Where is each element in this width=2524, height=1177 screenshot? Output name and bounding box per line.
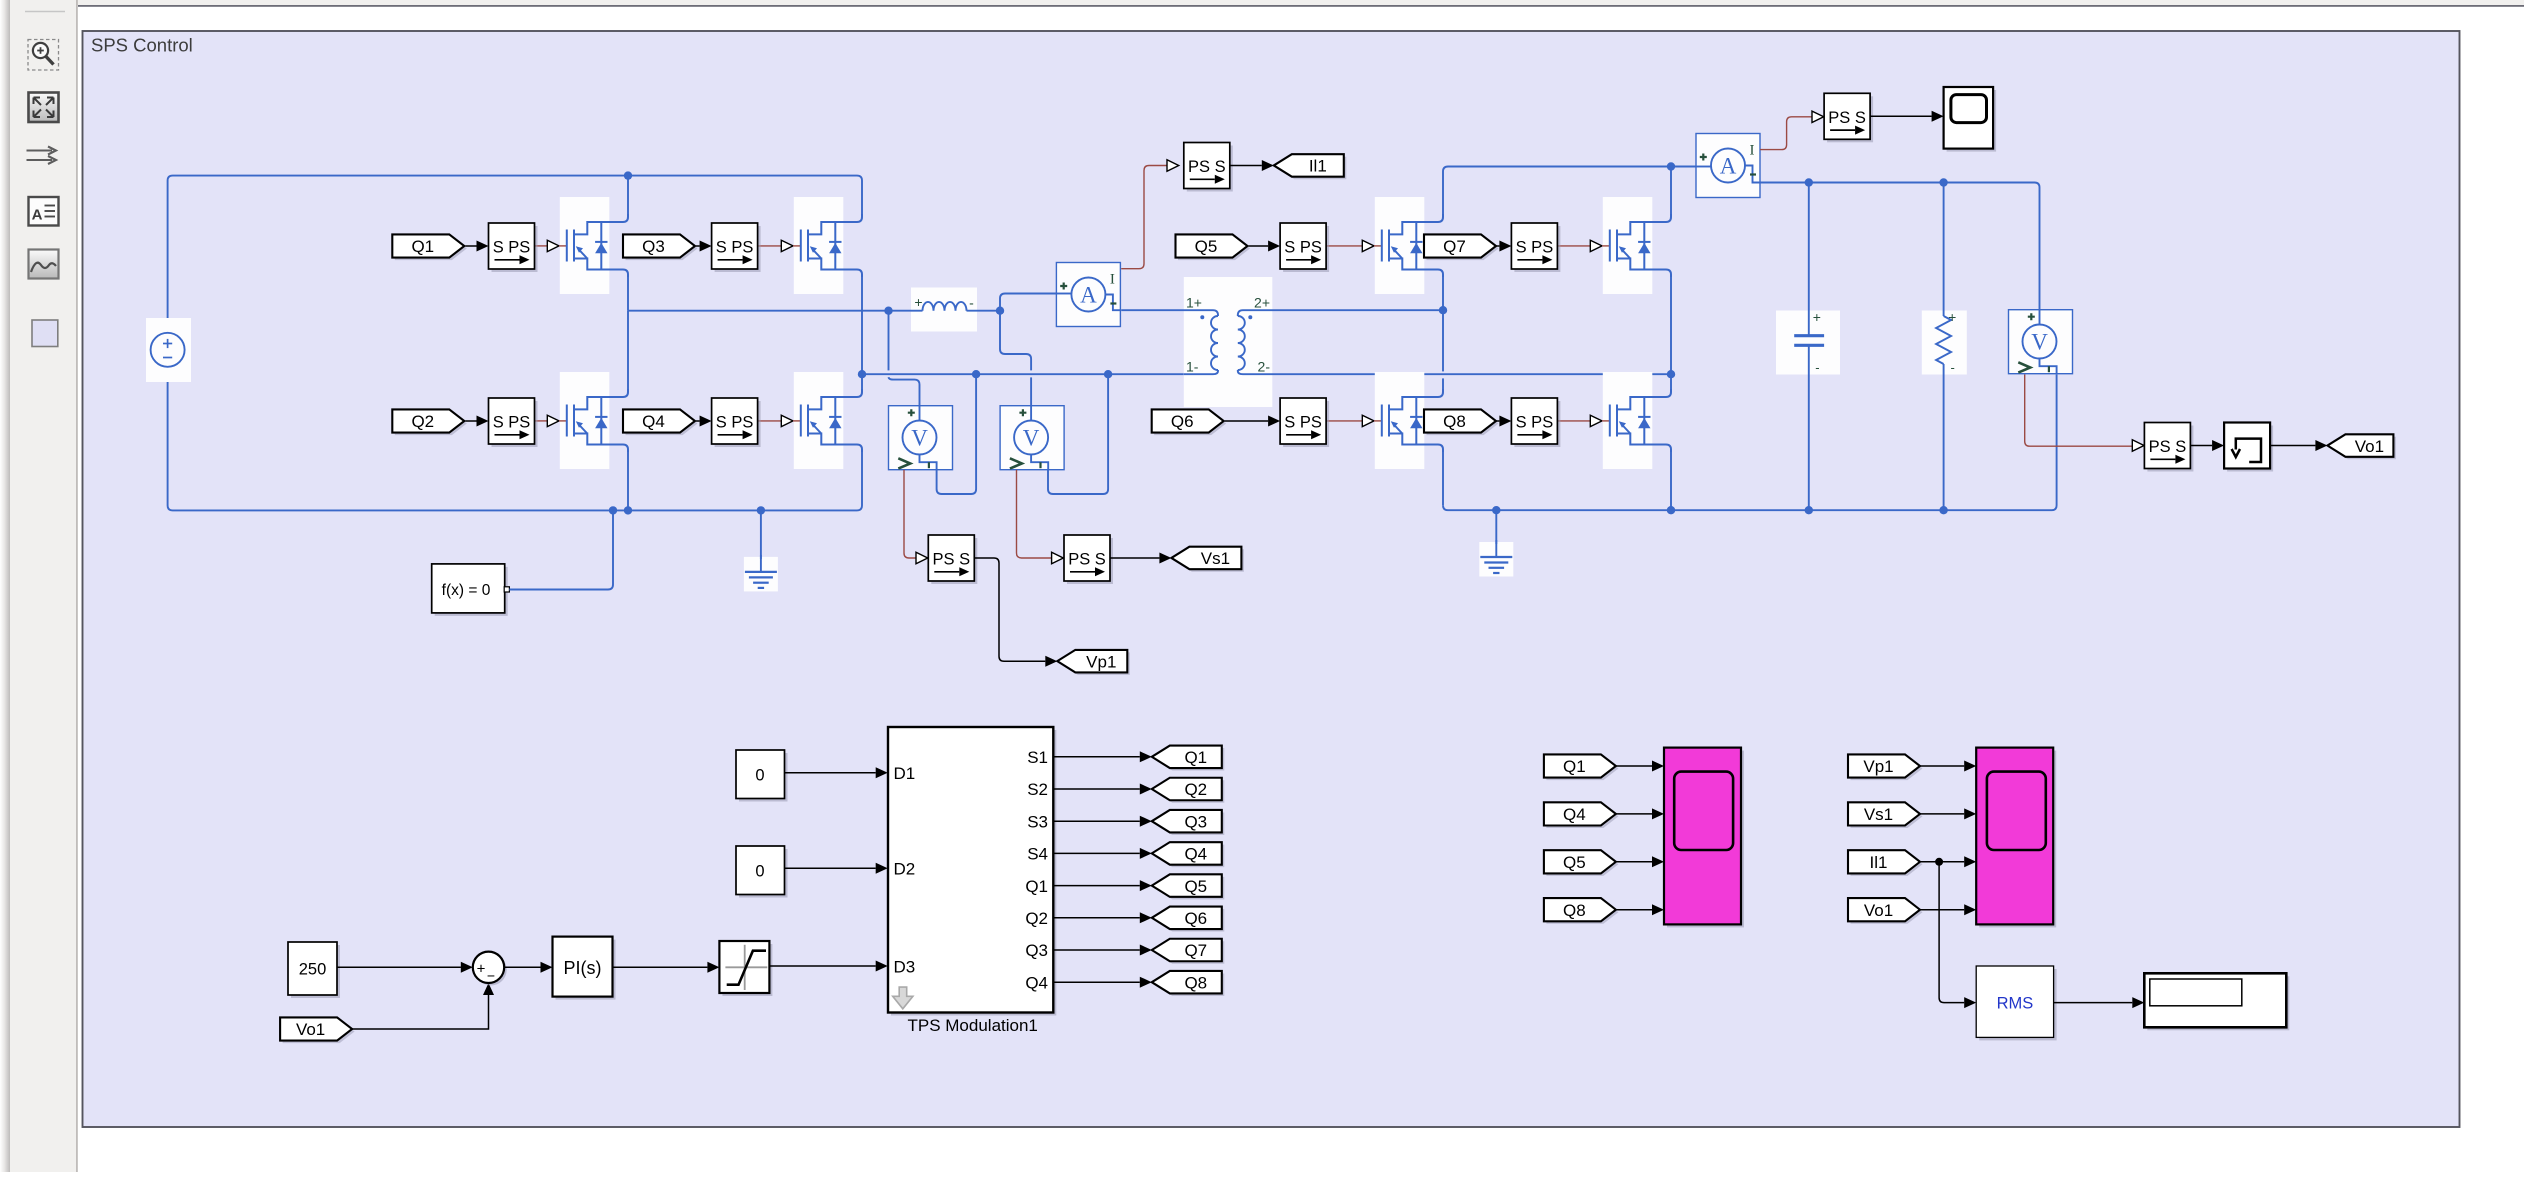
sidebar icon: area — [32, 320, 58, 347]
junction: DC rail / resistor — [1939, 178, 1947, 186]
left sidebar panel — [0, 0, 77, 1172]
svg-text:A: A — [1720, 154, 1737, 179]
wire: TPS output to Q7 tag — [1053, 949, 1140, 951]
sum block — [475, 954, 506, 985]
svg-text:Vs1: Vs1 — [1201, 549, 1230, 568]
wire: converter to Vp1 tag — [974, 558, 1045, 661]
tag Vs1 (Goto) — [1174, 549, 1244, 572]
svg-text:Q5: Q5 — [1563, 853, 1586, 872]
wire: bottom rail to ground1 — [760, 510, 762, 559]
svg-text:−: − — [487, 968, 495, 984]
svg-text:S PS: S PS — [716, 239, 754, 257]
svg-text:SPS Control: SPS Control — [91, 35, 193, 56]
sidebar icon: fit to view — [29, 93, 59, 123]
converter PS-S Vo1 — [2147, 426, 2193, 472]
svg-text:Q3: Q3 — [1184, 812, 1207, 831]
svg-text:Q4: Q4 — [642, 412, 665, 431]
svg-text:Q7: Q7 — [1184, 941, 1207, 960]
svg-text:-: - — [1815, 360, 1819, 375]
constant 0 block D2 — [739, 849, 788, 898]
svg-text:Q8: Q8 — [1563, 901, 1586, 920]
wire: Q5 to converter — [1249, 245, 1269, 247]
converter S-PS Q6 — [1283, 401, 1329, 447]
wire: converter to rate transition — [2190, 445, 2212, 447]
ammeter A2 — [1696, 134, 1760, 198]
wire: Q1 to scope1 — [1616, 765, 1652, 767]
svg-text:Vp1: Vp1 — [1863, 757, 1893, 776]
inductor L1 — [911, 288, 977, 332]
svg-text:Q3: Q3 — [1025, 941, 1048, 960]
svg-text:Q3: Q3 — [642, 237, 665, 256]
svg-text:1-: 1- — [1186, 359, 1199, 375]
wire: PI to saturation — [613, 966, 708, 968]
svg-text:1+: 1+ — [1186, 295, 1202, 311]
wire: converter to II1 tag — [1230, 165, 1262, 167]
tag Q8 out (Goto) — [1154, 973, 1224, 996]
wire: 0 to D2 — [785, 867, 876, 869]
tag Il1 scope input (From) — [1851, 853, 1923, 876]
wire: Q2 to converter — [465, 420, 476, 422]
tag Q4 (From) — [626, 412, 698, 435]
junction: lower rail / V2 return — [1104, 370, 1112, 378]
wire: Q8 to scope1 — [1616, 909, 1652, 911]
tag Q5 scope input (From) — [1546, 853, 1618, 876]
wire: M8 drain leg — [1670, 374, 1672, 389]
svg-text:Vo1: Vo1 — [296, 1020, 325, 1039]
wire: saturation to D3 — [769, 965, 875, 967]
svg-text:Il1: Il1 — [1870, 853, 1888, 872]
junction: lower rail / V1 return — [972, 370, 980, 378]
junction: bottom rail / M2 — [624, 506, 632, 514]
rate transition block — [2227, 426, 2273, 472]
converter S-PS Q2 — [492, 401, 538, 447]
wire: Q5 to scope1 — [1616, 861, 1652, 863]
wire: Il1 to scope2 — [1920, 861, 1964, 863]
tag Vo1 scope input (From) — [1851, 901, 1923, 924]
tag Q5 out (Goto) — [1154, 877, 1224, 900]
svg-text:V: V — [911, 426, 928, 451]
svg-text:S PS: S PS — [1284, 414, 1322, 432]
junction: mid rail / V1 branch — [884, 307, 892, 315]
svg-text:2-: 2- — [1258, 359, 1271, 375]
tag Q8 scope input (From) — [1546, 901, 1618, 924]
tag Vs1 scope input (From) — [1851, 805, 1923, 828]
svg-text:I: I — [1750, 143, 1755, 159]
svg-text:2+: 2+ — [1254, 295, 1270, 311]
wire: M1 source to mid rail — [627, 277, 629, 311]
junction: DC rail / capacitor — [1805, 178, 1813, 186]
tag Q1 (From) — [395, 237, 467, 260]
tag Q4 scope input (From) — [1546, 805, 1618, 828]
wire: node to V2 sensor — [1000, 311, 1031, 371]
svg-text:0: 0 — [755, 863, 764, 881]
tag Q7 (From) — [1427, 237, 1499, 260]
scope block (current) — [1947, 90, 1997, 152]
transistor Q6 MOSFET — [1375, 372, 1425, 469]
wire: TPS output to Q4 tag — [1053, 852, 1140, 854]
svg-text:A: A — [1080, 283, 1097, 308]
junction: bottom rail / ground2 — [1492, 506, 1500, 514]
converter S-PS Q4 — [715, 401, 761, 447]
wire: TPS output to Q8 tag — [1053, 981, 1140, 983]
converter S-PS Q8 — [1514, 401, 1560, 447]
svg-text:D2: D2 — [894, 860, 916, 879]
wire: M8 source to bottom rail — [1670, 452, 1672, 510]
svg-text:+: + — [477, 960, 486, 977]
wire: Q1 to converter — [465, 245, 476, 247]
wire: secondary top rail — [1443, 167, 1696, 215]
svg-text:S PS: S PS — [1516, 414, 1554, 432]
svg-text:+: + — [1948, 309, 1956, 325]
svg-text:-: - — [1951, 360, 1955, 375]
tag Q3 (From) — [626, 237, 698, 260]
solver f(x)=0 block — [435, 567, 508, 616]
converter PS-S Vs1 — [1067, 538, 1113, 584]
svg-text:Q1: Q1 — [1563, 757, 1586, 776]
tag Vp1 (Goto) — [1060, 652, 1130, 675]
junction: 2- rail / M7 — [1667, 370, 1675, 378]
svg-text:S PS: S PS — [1516, 239, 1554, 257]
wire: Q8 to converter — [1496, 420, 1499, 422]
converter S-PS Q7 — [1514, 226, 1560, 272]
svg-text:S PS: S PS — [1284, 239, 1322, 257]
svg-text:D3: D3 — [894, 957, 916, 976]
ground G1 — [744, 557, 778, 592]
wire: TPS output to Q1 tag — [1053, 756, 1140, 758]
svg-text:Vp1: Vp1 — [1086, 652, 1116, 671]
display block — [2147, 976, 2289, 1030]
svg-text:Vo1: Vo1 — [1864, 901, 1893, 920]
wire: sum to PI — [504, 966, 540, 968]
svg-text:Q6: Q6 — [1171, 412, 1194, 431]
PI controller block — [556, 940, 616, 1000]
wire: rate transition to Vo1 tag — [2270, 445, 2315, 447]
wire: Q3 to converter — [696, 245, 700, 247]
transformer T1 — [1184, 277, 1273, 407]
wire: V2 PS output to converter — [1017, 470, 1052, 558]
wire: Q7 to converter — [1496, 245, 1499, 247]
wire: M4 drain leg — [861, 374, 863, 389]
svg-text:S2: S2 — [1027, 780, 1048, 799]
wire: M2 source to bottom rail — [627, 452, 629, 510]
junction: bottom rail / resistor — [1939, 506, 1947, 514]
tag Q5 (From) — [1178, 237, 1250, 260]
svg-text:250: 250 — [299, 961, 327, 979]
junction: bottom rail / M8 — [1667, 506, 1675, 514]
scope2 (measurements) — [1979, 751, 2056, 928]
transistor Q3 MOSFET — [794, 197, 844, 294]
wire: TPS output to Q5 tag — [1053, 885, 1140, 887]
junction: bottom rail / capacitor — [1805, 506, 1813, 514]
tag Vp1 scope input (From) — [1851, 757, 1923, 780]
wire: primary top rail — [168, 176, 862, 333]
svg-text:A: A — [32, 207, 43, 224]
converter PS-S Vp1 — [931, 538, 977, 584]
transistor Q5 MOSFET — [1375, 197, 1425, 294]
top toolbar strip — [0, 0, 2524, 5]
transistor Q8 MOSFET — [1603, 372, 1653, 469]
svg-text:Q5: Q5 — [1195, 237, 1218, 256]
wire: M7 source to 2- rail — [1670, 277, 1672, 374]
wire: V2 return to lower rail — [1048, 374, 1108, 494]
svg-text:PS S: PS S — [1828, 109, 1866, 127]
svg-text:Q1: Q1 — [411, 237, 434, 256]
wire: solver to bottom rail — [509, 510, 613, 589]
constant 0 block D1 — [739, 753, 788, 802]
svg-text:Il1: Il1 — [1309, 157, 1327, 176]
wire: mid node to V1 sensor — [888, 311, 890, 371]
svg-text:-: - — [969, 295, 974, 311]
junction: Il1 branch — [1935, 858, 1943, 866]
wire: 250 to sum — [337, 966, 461, 968]
wire: TPS output to Q3 tag — [1053, 820, 1140, 822]
wire: TPS output to Q6 tag — [1053, 917, 1140, 919]
wire: Il1 branch to RMS — [1939, 862, 1964, 1003]
transistor Q2 MOSFET — [560, 372, 610, 469]
wire: Q4 to scope1 — [1616, 813, 1652, 815]
svg-text:RMS: RMS — [1997, 995, 2034, 1013]
svg-text:S3: S3 — [1027, 812, 1048, 831]
ground G2 — [1479, 542, 1513, 577]
wire: V1 PS output to converter — [904, 470, 916, 558]
junction: lower rail / leg2 — [858, 370, 866, 378]
tag Q4 out (Goto) — [1154, 845, 1224, 868]
svg-text:Q2: Q2 — [411, 412, 434, 431]
svg-text:S PS: S PS — [716, 414, 754, 432]
wire: V3 PS output to converter — [2025, 375, 2133, 447]
constant 250 block — [291, 945, 340, 998]
junction: 2+ rail / M5 — [1439, 306, 1447, 314]
wire: Q4 to converter — [696, 420, 700, 422]
wire: Q6 to converter — [1225, 420, 1268, 422]
wire: lower rail to transformer 1- — [862, 373, 1184, 375]
svg-text:Q1: Q1 — [1025, 877, 1048, 896]
tag Q2 (From) — [395, 412, 467, 435]
saturation block — [722, 944, 772, 996]
svg-text:Q6: Q6 — [1184, 909, 1207, 928]
svg-text:Vs1: Vs1 — [1864, 805, 1893, 824]
converter PS-S scope — [1827, 96, 1873, 142]
tag Vo1 feedback (From) — [283, 1020, 355, 1043]
tag Q6 out (Goto) — [1154, 909, 1224, 932]
svg-text:PI(s): PI(s) — [564, 958, 602, 978]
tag Q6 (From) — [1154, 412, 1226, 435]
resistor R1 — [1922, 311, 1967, 375]
svg-text:PS S: PS S — [1068, 551, 1106, 569]
junction: bottom rail / ground1 — [757, 506, 765, 514]
TPS Modulation1 subsystem block — [891, 730, 1056, 1016]
svg-text:PS S: PS S — [1188, 158, 1226, 176]
svg-text:Vo1: Vo1 — [2355, 437, 2384, 456]
capacitor C1 — [1776, 311, 1840, 375]
svg-text:S PS: S PS — [493, 239, 531, 257]
converter S-PS Q1 — [492, 226, 538, 272]
wire: node to ammeter A1 input — [1000, 294, 1056, 311]
svg-text:+: + — [1813, 309, 1821, 325]
svg-text:Q4: Q4 — [1025, 973, 1048, 992]
svg-text:D1: D1 — [894, 764, 916, 783]
svg-text:Q1: Q1 — [1184, 748, 1207, 767]
wire: M6 drain leg — [1442, 310, 1444, 371]
junction: top rail / M7 leg — [1667, 162, 1675, 170]
svg-text:Q4: Q4 — [1563, 805, 1586, 824]
svg-text:Q5: Q5 — [1184, 877, 1207, 896]
voltage sensor V3 — [2009, 310, 2073, 374]
wire: secondary bottom rail — [1443, 375, 2057, 511]
converter S-PS Q5 — [1283, 226, 1329, 272]
svg-text:Q2: Q2 — [1025, 909, 1048, 928]
wire: 0 to D1 — [785, 772, 876, 774]
transistor Q1 MOSFET — [560, 197, 610, 294]
wire: V1 return to lower rail — [937, 374, 977, 494]
transistor Q4 MOSFET — [794, 372, 844, 469]
svg-text:Q8: Q8 — [1443, 412, 1466, 431]
voltage sensor V2 — [1000, 406, 1064, 470]
wire: DC link top rail — [1760, 183, 2040, 310]
svg-text:Q4: Q4 — [1184, 845, 1207, 864]
wire: RMS to display — [2054, 1002, 2133, 1004]
sidebar icon: zoom region (magnifier) — [28, 40, 59, 71]
tag Q3 out (Goto) — [1154, 812, 1224, 835]
wire: mid rail to inductor — [628, 310, 923, 312]
svg-text:PS S: PS S — [2149, 438, 2187, 456]
sidebar icon: annotation — [29, 197, 59, 226]
wire: primary bottom rail — [168, 367, 862, 511]
voltage sensor V1 — [889, 406, 953, 470]
tag Q7 out (Goto) — [1154, 941, 1224, 964]
wire: ammeter A2 current output — [1760, 117, 1812, 150]
tag Q8 (From) — [1427, 412, 1499, 435]
voltage source V_dc — [146, 318, 191, 382]
tag Il1 (Goto) — [1276, 157, 1346, 180]
tag Q1 scope input (From) — [1546, 757, 1618, 780]
tag Q1 out (Goto) — [1154, 748, 1224, 771]
wire: TPS output to Q2 tag — [1053, 788, 1140, 790]
wire: Vs1 to scope2 — [1920, 813, 1964, 815]
wire: converter to scope — [1870, 115, 1932, 117]
wire: M5 source to 2+ rail — [1442, 277, 1444, 310]
svg-text:0: 0 — [755, 767, 764, 785]
svg-text:PS S: PS S — [932, 551, 970, 569]
wire: converter to Vs1 tag — [1110, 557, 1159, 559]
wire: Vo1 to scope2 — [1920, 909, 1964, 911]
wire: M6 source to bottom rail — [1442, 452, 1444, 505]
wire: inductor to ammeter node — [967, 310, 1001, 312]
converter S-PS Q3 — [715, 226, 761, 272]
wire: Vp1 to scope2 — [1920, 765, 1964, 767]
svg-text:I: I — [1110, 272, 1115, 288]
junction: inductor / ammeter / V2 — [996, 307, 1004, 315]
wire: Vo1 to sum — [352, 995, 488, 1029]
scope1 (gate signals) — [1667, 751, 1744, 928]
svg-text:Q2: Q2 — [1184, 780, 1207, 799]
svg-text:TPS Modulation1: TPS Modulation1 — [907, 1016, 1037, 1035]
wire: M7 drain leg — [1670, 167, 1672, 215]
wire: M3 source to lower rail — [861, 277, 863, 374]
svg-text:Q8: Q8 — [1184, 973, 1207, 992]
ammeter A1 — [1056, 263, 1120, 327]
TPS block link arrow icon — [893, 987, 913, 1009]
svg-text:f(x) = 0: f(x) = 0 — [442, 582, 491, 599]
svg-text:Q7: Q7 — [1443, 237, 1466, 256]
RMS block — [1979, 969, 2056, 1040]
transistor Q7 MOSFET — [1603, 197, 1653, 294]
sidebar icon: image — [29, 250, 59, 279]
svg-text:S4: S4 — [1027, 845, 1048, 864]
wire: M2 drain leg — [627, 311, 629, 389]
svg-text:V: V — [1023, 426, 1040, 451]
svg-text:V: V — [2031, 330, 2048, 355]
wire: ammeter A1 current output — [1121, 166, 1167, 269]
converter PS-S II1 — [1187, 146, 1233, 192]
tag Q2 out (Goto) — [1154, 780, 1224, 803]
junction: bottom rail / solver — [609, 506, 617, 514]
svg-text:S PS: S PS — [493, 414, 531, 432]
sidebar icon: signal arrows — [27, 147, 57, 165]
wire: M1 drain leg — [627, 176, 629, 214]
junction: top rail / M1 — [624, 171, 632, 179]
tag Vo1 (Goto) — [2330, 437, 2396, 460]
svg-text:+: + — [914, 294, 922, 310]
svg-text:S1: S1 — [1027, 748, 1048, 767]
